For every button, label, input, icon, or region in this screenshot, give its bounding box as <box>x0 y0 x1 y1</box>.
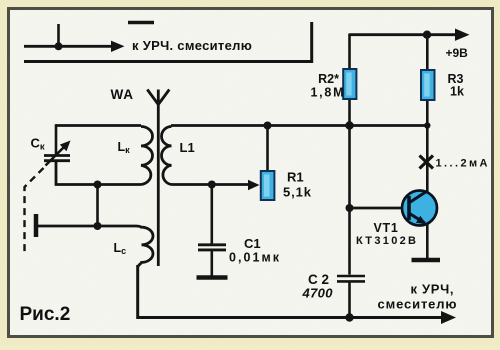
svg-text:1,8М: 1,8М <box>311 86 344 100</box>
ground terminal bar <box>34 214 39 237</box>
scan noise texture <box>0 0 1 1</box>
arrowhead: output to mixer (top) <box>111 41 125 52</box>
wire: ground terminal to Ls <box>38 226 142 229</box>
wire: R2 branch vertical (rail to C2 top plate) <box>348 34 351 275</box>
resistor R1 body <box>261 171 275 200</box>
transistor VT1 <box>402 191 437 226</box>
svg-text:R2*: R2* <box>318 72 339 86</box>
wire: mid rail L1 top to collector node <box>171 124 427 127</box>
wire: long line with upward hook <box>24 22 312 62</box>
coil Ls <box>138 227 153 267</box>
svg-text:смесителю: смесителю <box>378 297 457 312</box>
svg-text:4700: 4700 <box>302 286 334 301</box>
coil L1 <box>162 127 172 185</box>
variable capacitor Ck arrow shaft <box>46 145 67 166</box>
node: bottom rail / C2 <box>345 313 353 321</box>
node: mid rail / R2 <box>345 121 353 129</box>
svg-text:1...2мА: 1...2мА <box>436 158 488 170</box>
capacitor C1 top lead <box>211 185 214 244</box>
node: output line junction <box>55 42 63 50</box>
svg-text:к УРЧ,: к УРЧ, <box>411 282 454 297</box>
variable capacitor Ck plates <box>44 154 70 157</box>
node: base junction <box>346 204 354 212</box>
wire: tank bottom tap vertical <box>96 185 99 227</box>
cropped stub line (top) <box>128 21 154 25</box>
node: tank bottom tap <box>94 181 102 189</box>
svg-text:к УРЧ. смесителю: к УРЧ. смесителю <box>132 38 252 53</box>
wire: base wire <box>350 207 413 210</box>
svg-text:1k: 1k <box>450 85 464 99</box>
svg-text:R1: R1 <box>287 170 304 185</box>
svg-text:+9В: +9В <box>446 46 469 60</box>
resistor R2 body <box>343 69 356 99</box>
svg-text:VT1: VT1 <box>374 221 399 235</box>
coil Lk <box>141 127 152 185</box>
capacitor C2 plates <box>337 275 365 278</box>
wire: +9V rail <box>350 33 457 36</box>
wire: C2 bottom plate to ground rail <box>348 283 351 319</box>
node: mid rail / collector branch <box>424 122 430 128</box>
emitter ground bar <box>412 258 441 263</box>
node: +9V / R3 junction <box>423 31 431 39</box>
wire: tank left upper <box>55 124 58 154</box>
wire: Ls down to bottom rail <box>138 265 442 318</box>
svg-text:L1: L1 <box>180 140 195 155</box>
node: ground wire tap <box>94 222 102 230</box>
wire: output line to URCh mixer <box>24 45 113 48</box>
variable capacitor Ck dashed coupling <box>25 168 44 253</box>
capacitor C1 plates <box>198 243 226 246</box>
svg-text:C1: C1 <box>244 236 261 251</box>
X current mark <box>420 156 434 169</box>
resistor R3 body <box>421 70 435 100</box>
wire: R1 top vertical <box>266 126 269 172</box>
svg-text:WA: WA <box>111 87 134 102</box>
arrowhead: +9V <box>455 29 470 41</box>
ground bar under C1 <box>197 275 228 280</box>
node: C1 top <box>208 181 216 189</box>
antenna WA symbol <box>147 90 169 267</box>
wire: stub into output line <box>57 24 60 46</box>
wire: L1 bottom to R1 arrow <box>172 183 251 186</box>
wire: R3/collector/emitter vertical <box>426 35 429 258</box>
wire: tank left lower + tank bottom <box>56 162 141 185</box>
wire: tank top <box>56 124 141 127</box>
svg-text:5,1k: 5,1k <box>283 185 312 200</box>
arrowhead: bottom to mixer <box>441 311 456 324</box>
svg-text:Рис.2: Рис.2 <box>20 304 71 325</box>
arrowhead: Ck variable arrow <box>60 141 71 152</box>
capacitor C1 bottom lead <box>211 251 214 276</box>
node: mid rail / R1 <box>264 122 272 130</box>
arrowhead: into R1 <box>248 180 260 190</box>
